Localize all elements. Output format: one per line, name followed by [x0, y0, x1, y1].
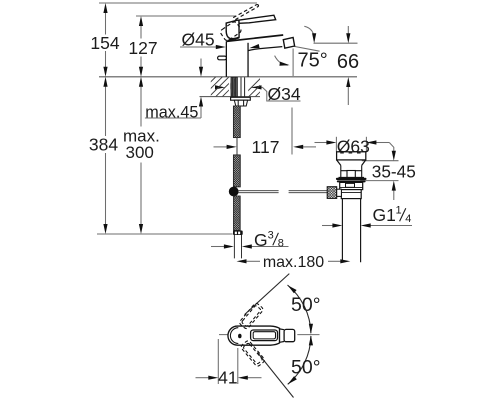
deck mounting surface line	[99, 76, 357, 78]
max45 leader and arrow shafts	[145, 117, 201, 119]
threaded shank in deck	[231, 77, 237, 96]
flexible hose lower segment	[234, 196, 241, 231]
dimension line max.180	[246, 260, 261, 262]
ball joint of pop-up rod	[229, 187, 239, 197]
dimension line 154	[105, 6, 107, 35]
arrowheads dimension max300	[139, 77, 143, 87]
dashed raised lever grip	[219, 21, 242, 42]
leader line Ø45	[180, 46, 218, 48]
faucet lever grip	[226, 20, 239, 39]
arrowheads swivel arcs	[286, 284, 296, 294]
swivel arc upper	[288, 285, 311, 333]
plug neck collar	[339, 165, 365, 177]
svg-text:50°: 50°	[291, 294, 321, 316]
extension lines 41	[217, 339, 219, 384]
svg-text:Ø34: Ø34	[268, 84, 301, 104]
top view spout neck	[280, 329, 285, 342]
mounting washer	[231, 97, 251, 100]
dimension line 384	[105, 80, 107, 137]
hose centerline at gap	[236, 138, 238, 155]
rear stub top view	[219, 334, 228, 336]
lever front lower edge	[228, 38, 240, 41]
pull-rod knob at rear	[218, 56, 227, 60]
G3/8 hose nut	[233, 231, 243, 236]
svg-text:4: 4	[405, 213, 411, 225]
G3/8 threaded end tube	[234, 235, 241, 258]
flexible hose mid segment	[233, 155, 240, 187]
dimension line Ø63	[315, 142, 329, 144]
dimension line max300	[140, 80, 142, 127]
horizontal pop-up rod right part	[289, 191, 328, 193]
top view lever inner	[253, 332, 275, 339]
extension lines 35-45	[362, 160, 399, 162]
arrowheads Ø34	[215, 85, 225, 89]
dashed lever rotated down 50 deg	[240, 340, 265, 367]
waste body upper	[340, 182, 363, 189]
faucet body top edge	[226, 35, 283, 41]
extension line spout outlet height	[314, 42, 358, 44]
leader line Ø34	[252, 87, 301, 101]
swivel arc lower	[288, 336, 311, 384]
dashed raised lever arm	[233, 5, 258, 20]
rod clevis	[337, 189, 342, 196]
svg-text:G: G	[254, 230, 268, 250]
plug taper	[337, 160, 366, 166]
waste tailpipe	[342, 199, 360, 263]
svg-text:8: 8	[278, 237, 284, 249]
mounting nut	[234, 100, 247, 106]
top view lever outline	[251, 330, 278, 341]
spout aerator tip	[283, 38, 294, 49]
smooth shank tube	[241, 77, 245, 96]
extension line top of lever arm (127)	[136, 15, 236, 17]
top view inner ring arc	[230, 328, 238, 344]
svg-text:1: 1	[396, 204, 402, 216]
arrowheads 66	[346, 33, 350, 43]
arrowheads max.180	[237, 259, 247, 263]
swivel ray upper 50 deg	[245, 274, 290, 315]
hose curves inside shank	[231, 79, 235, 97]
svg-text:117: 117	[252, 137, 280, 157]
deck underside line	[200, 96, 261, 98]
svg-text:384: 384	[89, 135, 118, 155]
spout underside curve	[248, 47, 282, 51]
swivel ray lower 50 deg	[258, 353, 294, 398]
extension line at x=292 (Ø34 reference)	[291, 108, 293, 155]
extension lines Ø63	[335, 137, 337, 152]
dimension line 127	[140, 19, 142, 39]
dashed lever rotated up 50 deg	[239, 302, 264, 329]
horizontal pop-up rod left part	[238, 191, 279, 193]
arrowheads 117	[227, 145, 237, 149]
extension line vertical 75 deg	[292, 49, 294, 77]
extension line hose end (384 / max300 bottom)	[97, 233, 233, 235]
dimension line 66	[347, 26, 349, 38]
arrowheads 41	[208, 376, 218, 380]
svg-text:41: 41	[218, 368, 237, 388]
arrowheads G1 1/4	[332, 223, 342, 227]
svg-text:154: 154	[90, 33, 119, 53]
svg-text:50°: 50°	[291, 357, 321, 379]
top view cartridge dot	[238, 334, 242, 339]
flexible hose upper segment	[233, 106, 240, 138]
dimension line 117	[214, 146, 229, 148]
top view body capsule	[228, 326, 280, 345]
waste plug cylinder	[337, 152, 366, 160]
arrowheads dimension 154	[103, 3, 107, 13]
arrowhead arc outlet	[312, 33, 316, 43]
svg-text:35-45: 35-45	[372, 161, 416, 181]
arrowheads G3/8	[224, 244, 234, 248]
arrowhead arc 75	[279, 62, 289, 68]
waste body lower	[341, 190, 361, 199]
arc arrow to outlet height line	[304, 26, 314, 40]
extension line top of handle	[99, 2, 257, 4]
waste seal flange	[336, 178, 367, 180]
svg-text:300: 300	[126, 143, 154, 162]
arrowheads dimension 384	[103, 77, 107, 87]
svg-text:Ø45: Ø45	[182, 30, 215, 50]
arc arrow 75 deg	[275, 56, 288, 66]
deck hatching left	[196, 77, 242, 97]
arrowheads Ø63	[326, 140, 336, 144]
faucet lever arm	[237, 15, 276, 23]
svg-text:max.45: max.45	[145, 103, 198, 121]
dimension line G3/8	[211, 246, 226, 248]
svg-text:3: 3	[268, 230, 274, 242]
svg-text:75°: 75°	[298, 50, 328, 72]
arrowheads Ø45	[216, 45, 226, 49]
svg-text:max.180: max.180	[263, 254, 324, 271]
faucet body left edge	[225, 41, 227, 76]
plug top slots	[340, 152, 360, 154]
svg-text:G1: G1	[373, 205, 396, 225]
arrowheads max45	[199, 67, 203, 77]
arrowheads dimension 127	[139, 16, 143, 26]
top view aerator	[284, 329, 295, 341]
knurled rod nut	[327, 187, 337, 199]
svg-text:66: 66	[337, 51, 359, 73]
spout axis ray 75 deg	[294, 46, 319, 51]
deck hatching right	[242, 77, 275, 97]
dimension line G1 1/4	[322, 225, 334, 227]
centerline top view	[297, 334, 319, 336]
arrowheads 35-45	[392, 151, 396, 161]
svg-text:127: 127	[128, 38, 157, 58]
dimension line 41	[196, 377, 210, 379]
faucet body right edge	[247, 43, 249, 77]
